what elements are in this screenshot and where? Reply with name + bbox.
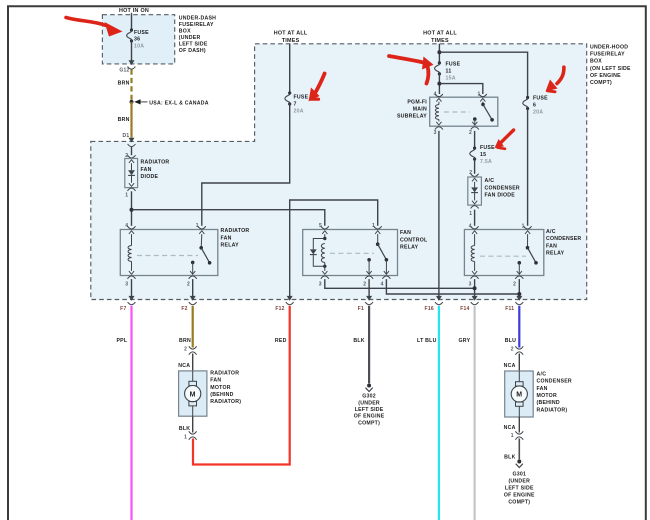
svg-text:FAN: FAN: [537, 386, 548, 392]
wire branch over to fuse 6: [439, 52, 527, 97]
red annotation arrow at fuse 15: [501, 130, 514, 143]
svg-text:F16: F16: [425, 306, 434, 312]
svg-text:OF ENGINE: OF ENGINE: [590, 73, 621, 79]
svg-text:3: 3: [125, 281, 128, 287]
svg-text:RADIATOR: RADIATOR: [141, 160, 170, 166]
wire NCA pigtail to radiator fan motor: [192, 354, 194, 371]
wire hot-in-on feed into under-dash box: [131, 13, 133, 30]
wire BLU from F11 to A/C condenser fan motor: [518, 306, 520, 348]
connector F7 at under-hood box edge: [129, 296, 135, 301]
junction node feeding subrelay pin 1: [437, 82, 441, 86]
svg-text:PGM-FI: PGM-FI: [407, 99, 427, 105]
svg-text:FAN: FAN: [400, 230, 411, 236]
fan control relay pin 4 internal: [385, 260, 387, 275]
connector F11 at under-hood box edge: [516, 296, 522, 301]
svg-text:FAN: FAN: [546, 243, 557, 249]
svg-text:CONTROL: CONTROL: [400, 237, 428, 243]
svg-text:BRN: BRN: [118, 80, 130, 86]
fuse F7 20A: [288, 91, 291, 94]
wire hot feed to fuse 11: [438, 44, 440, 63]
wire BLK pigtail below radiator fan motor: [192, 416, 194, 432]
relay FAN CONTROL RELAY (box): [303, 230, 398, 276]
svg-text:FAN: FAN: [221, 235, 232, 241]
wire PPL from F7 to page bottom: [130, 306, 132, 520]
wire D1 to radiator fan diode pin 2: [131, 147, 133, 156]
svg-text:HOT IN ON: HOT IN ON: [119, 8, 149, 14]
svg-text:5: 5: [319, 223, 322, 229]
svg-text:11: 11: [446, 68, 452, 74]
connector F12 at under-hood box edge: [287, 296, 293, 301]
svg-text:NCA: NCA: [504, 425, 516, 431]
svg-text:BLK: BLK: [179, 426, 190, 432]
svg-text:2: 2: [187, 281, 190, 287]
red annotation arrow at fuse 36: [66, 18, 106, 26]
wire junction to fan control relay pin 5: [132, 210, 325, 226]
motor RADIATOR FAN MOTOR (box): [179, 371, 207, 416]
svg-text:MOTOR: MOTOR: [210, 385, 230, 391]
svg-text:15A: 15A: [446, 75, 456, 81]
svg-text:M: M: [516, 392, 522, 399]
svg-text:FUSE/RELAY: FUSE/RELAY: [179, 22, 214, 28]
under-dash fuse/relay box (dashed, light blue): [102, 15, 174, 64]
wire diode pin1 down to junction and radiator relay pin 4: [131, 191, 133, 226]
fuse F15 7.5A: [473, 147, 476, 150]
svg-text:SUBRELAY: SUBRELAY: [397, 113, 427, 119]
fuse F6 20A: [526, 96, 529, 99]
svg-text:COMPT): COMPT): [358, 420, 380, 426]
wire BRN solid segment to D1: [130, 102, 132, 138]
wire RED from F12 looping to radiator fan motor pin 1: [193, 306, 290, 465]
wire fan control pin 4 over to F11 junction: [386, 279, 519, 294]
svg-text:F12: F12: [275, 306, 284, 312]
svg-text:F7: F7: [120, 306, 126, 312]
svg-text:FAN: FAN: [210, 378, 221, 384]
svg-text:G12: G12: [119, 68, 129, 74]
svg-text:NCA: NCA: [504, 363, 516, 369]
connector F2 at under-hood box edge: [190, 296, 196, 301]
fan control relay pin 2 contact: [367, 258, 371, 262]
svg-text:2: 2: [469, 130, 472, 136]
wire radiator relay pin 3 to F7: [131, 279, 133, 297]
svg-text:FAN DIODE: FAN DIODE: [485, 193, 516, 199]
relay RADIATOR FAN RELAY (box): [120, 230, 218, 276]
svg-text:RADIATOR): RADIATOR): [210, 399, 241, 405]
wire BLK to ground G301: [518, 439, 520, 460]
node USA: EX-L & CANADA callout: [130, 100, 134, 104]
svg-text:D1: D1: [122, 133, 129, 139]
svg-text:A/C: A/C: [546, 229, 556, 235]
relay A/C CONDENSER FAN RELAY (box): [464, 230, 543, 276]
svg-text:LEFT SIDE: LEFT SIDE: [355, 407, 384, 413]
svg-text:OF ENGINE: OF ENGINE: [354, 414, 385, 420]
svg-text:(ON LEFT SIDE: (ON LEFT SIDE: [590, 66, 631, 72]
wire fuse 36 to connector G12: [131, 41, 133, 61]
svg-text:RELAY: RELAY: [400, 245, 419, 251]
wire fuse 6 to A/C condenser fan relay pin 1: [527, 109, 529, 226]
svg-text:2: 2: [511, 346, 514, 352]
svg-text:10A: 10A: [134, 43, 144, 49]
wire F12 to fan control relay pin 1: [290, 200, 378, 297]
svg-text:BRN: BRN: [179, 338, 191, 344]
svg-text:FAN: FAN: [141, 167, 152, 173]
svg-text:BRN: BRN: [118, 117, 130, 123]
fuse F36 10A: [130, 28, 133, 31]
subrelay pin 2 contact: [473, 117, 477, 121]
junction node to fuse 6 branch: [437, 50, 441, 54]
svg-text:FUSE: FUSE: [134, 30, 149, 36]
A/C condenser fan diode (box): [471, 174, 479, 177]
wire BRN dashed option segment: [130, 70, 132, 102]
svg-text:MAIN: MAIN: [413, 106, 427, 112]
svg-text:20A: 20A: [294, 108, 304, 114]
svg-text:RELAY: RELAY: [546, 251, 565, 257]
junction node F11: [517, 292, 521, 296]
svg-text:2: 2: [513, 281, 516, 287]
wire fuse 7 to radiator fan relay pin 1: [202, 104, 290, 226]
svg-text:UNDER-DASH: UNDER-DASH: [179, 16, 216, 22]
wire diode pin 1 to A/C relay pin 4: [474, 210, 476, 226]
svg-text:2: 2: [184, 346, 187, 352]
svg-text:HOT AT ALL: HOT AT ALL: [274, 31, 308, 37]
svg-text:GRY: GRY: [458, 338, 470, 344]
svg-text:DIODE: DIODE: [141, 174, 159, 180]
subrelay coil: [438, 102, 440, 105]
junction node on radiator relay coil feed: [130, 208, 134, 212]
A/C relay pin 2 contact: [518, 261, 522, 265]
radiator relay coil: [131, 234, 133, 245]
svg-text:7: 7: [294, 101, 297, 107]
svg-text:OF ENGINE: OF ENGINE: [504, 493, 535, 499]
svg-text:TIMES: TIMES: [431, 38, 449, 44]
fan control relay linkage dashed: [330, 252, 374, 254]
svg-text:M: M: [190, 391, 196, 398]
wire A/C relay pin 3 to F14: [474, 279, 476, 297]
ground G302: [367, 384, 371, 388]
svg-text:1: 1: [469, 211, 472, 217]
svg-text:LT BLU: LT BLU: [417, 338, 437, 344]
svg-text:FUSE: FUSE: [480, 145, 495, 151]
svg-text:CONDENSER: CONDENSER: [537, 379, 572, 385]
svg-text:1: 1: [184, 435, 187, 441]
wire subrelay pin 2 to fuse 15: [474, 131, 476, 148]
wire BRN from F2 to radiator fan motor: [192, 306, 194, 348]
svg-text:TIMES: TIMES: [282, 38, 300, 44]
svg-text:BLU: BLU: [505, 338, 516, 344]
svg-text:BLK: BLK: [353, 338, 364, 344]
wire radiator relay pin 2 to F2: [192, 279, 194, 297]
svg-text:FUSE: FUSE: [294, 94, 309, 100]
radiator relay linkage dashed: [137, 255, 198, 257]
wire fuse 15 to A/C condenser fan diode pin 2: [474, 159, 476, 174]
svg-text:COMPT): COMPT): [590, 80, 612, 86]
svg-text:OF DASH): OF DASH): [179, 48, 206, 54]
svg-text:RED: RED: [275, 338, 287, 344]
svg-text:F2: F2: [181, 306, 187, 312]
svg-text:A/C: A/C: [537, 371, 547, 377]
svg-text:3: 3: [319, 281, 322, 287]
wire fan control pin 2 to F1: [368, 279, 370, 297]
wire BLK from F1 to ground G302: [368, 306, 370, 383]
svg-text:RADIATOR: RADIATOR: [210, 370, 239, 376]
svg-text:(BEHIND: (BEHIND: [210, 392, 233, 398]
svg-text:BOX: BOX: [590, 59, 602, 65]
svg-text:LEFT SIDE: LEFT SIDE: [179, 42, 208, 48]
svg-text:RELAY: RELAY: [221, 243, 240, 249]
svg-text:3: 3: [434, 130, 437, 136]
svg-text:UNDER-HOOD: UNDER-HOOD: [590, 45, 628, 51]
svg-text:PPL: PPL: [116, 338, 127, 344]
svg-text:(BEHIND: (BEHIND: [537, 400, 560, 406]
connector F1 at under-hood box edge: [366, 296, 372, 301]
svg-text:USA: EX-L & CANADA: USA: EX-L & CANADA: [149, 100, 208, 106]
svg-text:LEFT SIDE: LEFT SIDE: [505, 486, 534, 492]
wire fan control pin 3 over to F14 junction: [325, 279, 475, 288]
red annotation arrow at fuse 11: [389, 56, 424, 63]
wire NCA pigtail to A/C motor: [518, 354, 520, 372]
svg-text:F11: F11: [505, 306, 514, 312]
wire fuse 11 to PGM-FI subrelay pin 4: [438, 74, 440, 94]
wire GRY from F14 to page bottom: [474, 306, 476, 520]
svg-text:FUSE/RELAY: FUSE/RELAY: [590, 52, 625, 58]
svg-text:CONDENSER: CONDENSER: [546, 236, 581, 242]
svg-text:(UNDER: (UNDER: [179, 35, 201, 41]
svg-text:1: 1: [511, 433, 514, 439]
radiator fan diode D (box): [128, 155, 136, 158]
fuse F11 15A: [438, 61, 441, 64]
svg-text:3: 3: [469, 281, 472, 287]
svg-text:G301: G301: [512, 472, 526, 478]
svg-text:4: 4: [381, 281, 384, 287]
ground G301: [517, 460, 521, 464]
svg-text:20A: 20A: [533, 109, 543, 115]
connector F14 at under-hood box edge: [472, 296, 478, 301]
connector G12 at under-dash box edge: [129, 60, 135, 65]
junction node F14: [473, 286, 477, 290]
svg-text:HOT AT ALL: HOT AT ALL: [423, 31, 457, 37]
svg-text:F1: F1: [358, 306, 364, 312]
svg-text:15: 15: [480, 152, 486, 158]
motor A/C CONDENSER FAN MOTOR (box): [505, 371, 534, 417]
svg-text:MOTOR: MOTOR: [537, 393, 557, 399]
svg-text:FUSE: FUSE: [446, 61, 461, 67]
svg-text:CONDENSER: CONDENSER: [485, 185, 520, 191]
svg-text:1: 1: [125, 193, 128, 199]
svg-text:RADIATOR: RADIATOR: [221, 228, 250, 234]
wire LT BLU from F16 to page bottom: [438, 306, 440, 520]
red annotation arrow at fuse 6: [557, 67, 564, 83]
A/C relay coil: [474, 234, 476, 245]
svg-text:FUSE: FUSE: [533, 95, 548, 101]
red annotation arrow at fuse 7: [315, 74, 325, 94]
svg-text:A/C: A/C: [485, 178, 495, 184]
connector F16 at under-hood box edge: [436, 296, 442, 301]
relay PGM-FI MAIN SUBRELAY (box): [430, 97, 498, 126]
svg-text:NCA: NCA: [178, 363, 190, 369]
svg-text:(UNDER: (UNDER: [508, 479, 530, 485]
wire hot feed to fuse 7: [289, 44, 291, 93]
svg-text:G302: G302: [362, 394, 376, 400]
svg-text:36: 36: [134, 36, 140, 42]
svg-text:RADIATOR): RADIATOR): [537, 407, 568, 413]
svg-text:(UNDER: (UNDER: [358, 400, 380, 406]
wire branch to subrelay pin 1: [439, 84, 482, 94]
svg-text:1: 1: [372, 223, 375, 229]
under-hood fuse/relay box (dashed region, light blue): [91, 44, 587, 300]
wire subrelay pin 3 down to F16: [438, 131, 440, 297]
svg-text:2: 2: [363, 281, 366, 287]
svg-text:F14: F14: [460, 306, 469, 312]
svg-text:BOX: BOX: [179, 29, 191, 35]
svg-text:7.5A: 7.5A: [480, 159, 492, 165]
wire A/C relay pin 2 to F11: [518, 279, 520, 297]
svg-text:6: 6: [533, 102, 536, 108]
fan control relay coil and diode: [324, 234, 326, 238]
radiator relay pin 2 contact: [191, 261, 195, 265]
svg-text:COMPT): COMPT): [508, 500, 530, 506]
subrelay linkage dashed: [444, 111, 470, 113]
svg-text:BLK: BLK: [504, 454, 515, 460]
connector D1 at under-hood box edge: [129, 138, 135, 143]
A/C relay linkage dashed: [480, 255, 526, 257]
wire NCA pigtail below A/C motor: [518, 417, 520, 433]
